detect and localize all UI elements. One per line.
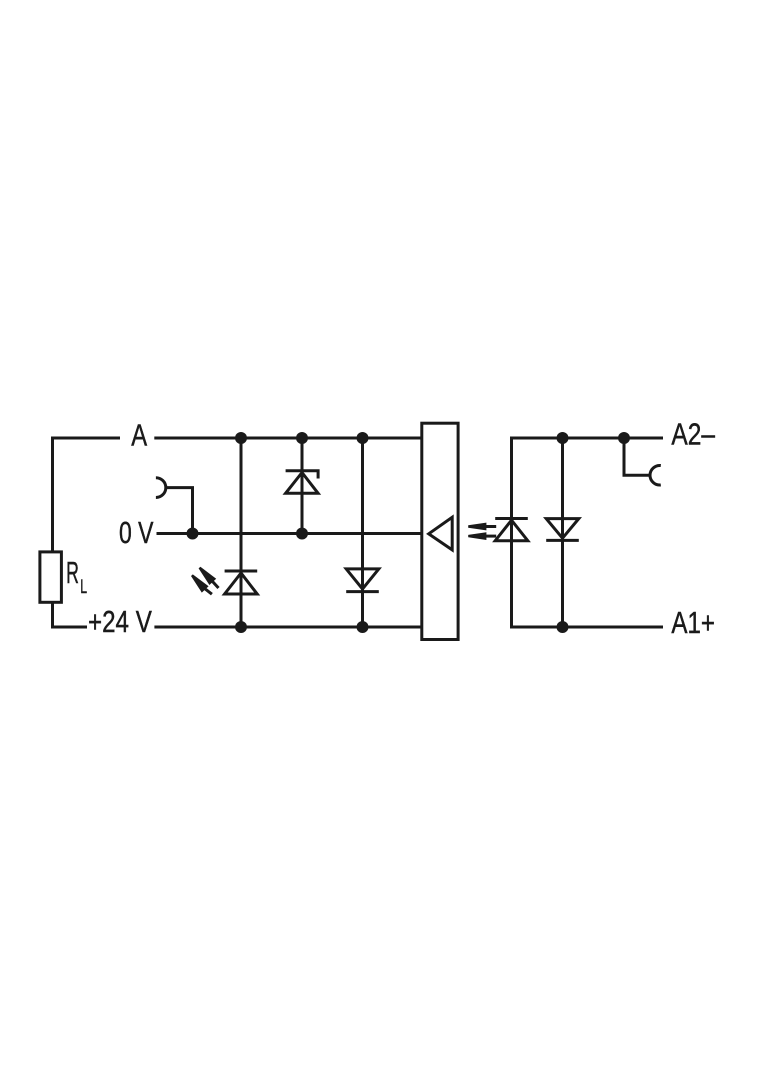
- wire: left vertical from A line to resistor: [51, 438, 54, 552]
- light arrow H2 into U1: [468, 532, 496, 540]
- diode D4 triangle: [546, 519, 579, 539]
- LED D1 cathode bar: [225, 570, 258, 573]
- svg-text:R: R: [66, 555, 79, 590]
- wire: stub from A2 to socket: [624, 438, 650, 475]
- diode D4 cathode bar: [546, 539, 579, 542]
- junction A2/socket stub: [618, 432, 630, 444]
- svg-text:A2–: A2–: [671, 417, 715, 452]
- junction branch3/+24V: [357, 621, 369, 633]
- junction branch2/0V: [296, 528, 308, 540]
- wire: A2 line: [512, 438, 664, 440]
- junction diode/A2: [557, 432, 569, 444]
- wire: A line left segment: [53, 438, 121, 440]
- wire: +24V line left segment: [53, 626, 88, 628]
- svg-text:A1+: A1+: [671, 605, 715, 640]
- receiver triangle in U1: [429, 517, 453, 550]
- junction branch1/A: [235, 432, 247, 444]
- junction on 0V line: [187, 528, 199, 540]
- svg-text:A: A: [131, 418, 147, 453]
- zener diode Z1 cathode bar with hook: [286, 471, 319, 479]
- junction branch1/+24V: [235, 621, 247, 633]
- wire: A1 line: [512, 626, 664, 628]
- optocoupler receiver box U1: [422, 423, 458, 639]
- connector socket symbol at 0V: [156, 478, 166, 498]
- junction branch2/A: [296, 432, 308, 444]
- wire: vertical branch 2 (zener) A to 0V: [301, 438, 304, 534]
- LED D1 emission arrow 2: [191, 574, 212, 594]
- wire: socket to 0V line: [167, 488, 193, 534]
- LED D3 cathode bar: [495, 517, 528, 520]
- connector socket symbol at A2: [650, 465, 661, 485]
- wire: left vertical from resistor to +24V line: [51, 602, 54, 627]
- junction branch3/A: [357, 432, 369, 444]
- junction diode/A1: [557, 621, 569, 633]
- label R_L: [66, 555, 87, 598]
- wire: right circuit left vertical (LED branch): [510, 438, 513, 627]
- svg-text:+24 V: +24 V: [88, 604, 152, 639]
- LED D1 triangle: [225, 573, 258, 594]
- wire: A line right segment to coupler box: [154, 437, 422, 440]
- svg-text:0 V: 0 V: [119, 515, 154, 550]
- LED D3 triangle: [495, 520, 528, 541]
- light arrow H1 into U1: [468, 523, 496, 531]
- diode D2 cathode bar: [346, 590, 379, 593]
- LED D1 emission arrow 1: [199, 567, 219, 588]
- wire: vertical branch 3 (diode): [361, 438, 364, 627]
- resistor R_L: [40, 552, 62, 602]
- wire: right circuit second vertical (diode branch): [561, 438, 564, 627]
- wire: 0V line to coupler box: [157, 532, 422, 535]
- svg-text:L: L: [80, 577, 87, 598]
- wire: vertical branch 1 (LED): [240, 438, 243, 627]
- wire: +24V line right segment to coupler box: [154, 626, 421, 629]
- zener diode Z1 triangle: [286, 473, 319, 494]
- diode D2 triangle: [346, 569, 379, 589]
